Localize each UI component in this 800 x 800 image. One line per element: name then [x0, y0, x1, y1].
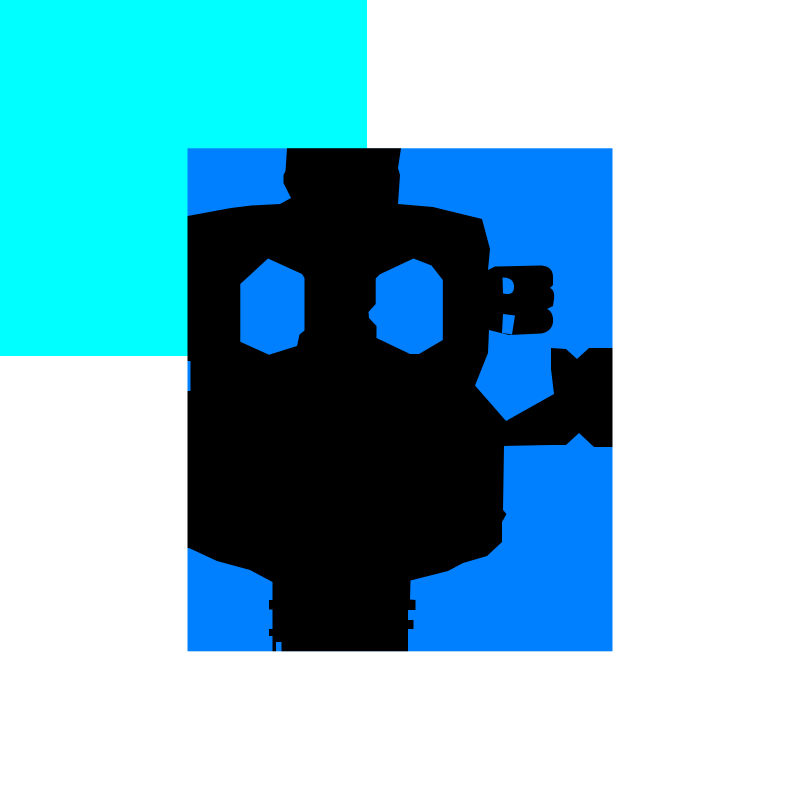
blue square (molecule canvas) — [188, 148, 613, 651]
cyan square — [0, 0, 367, 356]
ring B interior (right hexagon hole) — [369, 259, 443, 355]
atom label interior notch upper — [503, 278, 515, 295]
atom label interior notch lower — [502, 314, 515, 335]
ring A interior (left hexagon hole) — [240, 259, 304, 355]
molecule silhouette: fused rings, top substituent bonds, right arm, atom label, X group, bottom label bar — [188, 148, 613, 651]
blue sliver at ring A outer-left edge — [188, 361, 191, 391]
